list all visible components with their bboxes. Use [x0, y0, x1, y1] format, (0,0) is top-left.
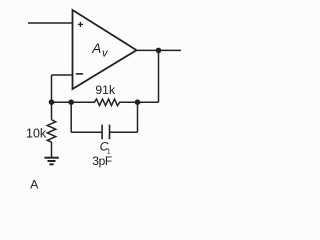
svg-text:10k: 10k — [26, 127, 47, 141]
svg-text:91k: 91k — [95, 83, 116, 97]
svg-text:v: v — [102, 48, 109, 60]
svg-text:A: A — [91, 41, 101, 56]
svg-text:3pF: 3pF — [92, 154, 112, 168]
svg-text:A: A — [30, 178, 39, 192]
